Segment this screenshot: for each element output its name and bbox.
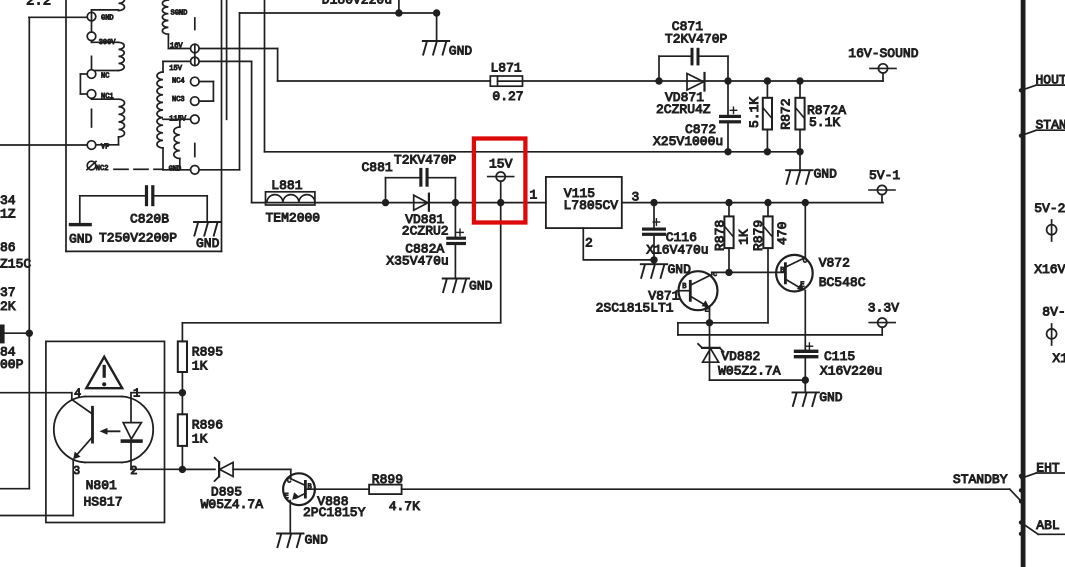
svg-text:X35V470u: X35V470u <box>386 254 448 269</box>
svg-text:R879: R879 <box>751 220 766 251</box>
svg-text:C115: C115 <box>824 349 855 364</box>
svg-text:1K: 1K <box>192 359 208 374</box>
svg-text:R896: R896 <box>192 418 223 433</box>
svg-text:1: 1 <box>530 188 538 203</box>
svg-text:TEM2000: TEM2000 <box>266 211 321 226</box>
svg-text:C: C <box>287 477 291 485</box>
svg-text:5V-1: 5V-1 <box>869 168 900 183</box>
svg-text:16V-SOUND: 16V-SOUND <box>848 46 918 61</box>
svg-text:C: C <box>803 258 807 266</box>
svg-text:B: B <box>682 283 686 291</box>
svg-text:5.1K: 5.1K <box>747 97 762 128</box>
svg-text:W05Z4.7A: W05Z4.7A <box>201 497 264 512</box>
svg-text:1: 1 <box>133 386 140 400</box>
svg-text:2.2: 2.2 <box>26 0 51 10</box>
svg-text:GND: GND <box>101 14 114 22</box>
svg-text:X16V470u: X16V470u <box>646 243 708 258</box>
svg-text:BC548C: BC548C <box>819 275 866 290</box>
svg-text:X16V: X16V <box>1034 262 1065 277</box>
svg-text:15V: 15V <box>489 157 513 172</box>
svg-text:STANDBY: STANDBY <box>1036 118 1065 133</box>
svg-text:2SC1815LT1: 2SC1815LT1 <box>596 301 674 316</box>
svg-text:4: 4 <box>74 386 81 400</box>
svg-text:C881: C881 <box>362 160 393 175</box>
svg-text:3: 3 <box>632 189 640 204</box>
svg-text:c: c <box>713 271 717 279</box>
svg-text:1K: 1K <box>192 432 208 447</box>
svg-text:470: 470 <box>775 222 790 245</box>
svg-text:B: B <box>780 267 784 275</box>
svg-text:GND: GND <box>814 166 838 181</box>
svg-text:2CZRU2: 2CZRU2 <box>402 224 449 239</box>
svg-text:SGND: SGND <box>171 10 188 18</box>
svg-text:NC2: NC2 <box>96 165 109 173</box>
svg-text:VD882: VD882 <box>721 349 760 364</box>
svg-text:GND: GND <box>469 278 493 293</box>
svg-text:STANDBY: STANDBY <box>953 472 1008 487</box>
svg-text:15V: 15V <box>169 65 182 73</box>
svg-text:HS817: HS817 <box>84 494 123 509</box>
svg-text:37: 37 <box>0 285 16 300</box>
svg-text:L871: L871 <box>491 61 522 76</box>
svg-text:B: B <box>308 484 312 492</box>
svg-text:T2KV470P: T2KV470P <box>394 152 457 167</box>
svg-text:EHT: EHT <box>1036 460 1060 475</box>
svg-text:T2KV470P: T2KV470P <box>665 31 728 46</box>
svg-text:R878: R878 <box>712 220 727 251</box>
svg-text:5.1K: 5.1K <box>809 115 840 130</box>
svg-text:NC4: NC4 <box>172 77 185 85</box>
svg-text:3.3V: 3.3V <box>868 300 899 315</box>
svg-text:5V-2: 5V-2 <box>1034 201 1065 216</box>
svg-text:NC: NC <box>101 73 109 81</box>
svg-text:HOUT: HOUT <box>1036 73 1065 88</box>
svg-text:300V: 300V <box>99 39 117 47</box>
svg-text:X16V220u: X16V220u <box>820 363 882 378</box>
svg-text:Z15C: Z15C <box>0 257 31 272</box>
svg-text:NC1: NC1 <box>101 93 114 101</box>
svg-text:86: 86 <box>0 240 16 255</box>
svg-text:E: E <box>285 493 289 501</box>
svg-text:GND: GND <box>819 390 843 405</box>
svg-text:T250V2200P: T250V2200P <box>99 230 177 245</box>
svg-text:2K: 2K <box>0 299 16 314</box>
svg-text:NC3: NC3 <box>172 96 185 104</box>
svg-text:R872: R872 <box>778 98 793 129</box>
svg-text:GND: GND <box>69 232 93 247</box>
svg-text:R899: R899 <box>372 472 403 487</box>
svg-text:L7805CV: L7805CV <box>564 198 619 213</box>
svg-text:115V: 115V <box>169 115 187 123</box>
svg-text:00P: 00P <box>0 357 24 372</box>
svg-text:2: 2 <box>585 235 593 250</box>
svg-text:E: E <box>800 281 804 289</box>
svg-text:N801: N801 <box>86 478 117 493</box>
svg-text:2CZRU4Z: 2CZRU4Z <box>656 102 711 117</box>
svg-text:0.27: 0.27 <box>492 89 523 104</box>
svg-text:2PC1815Y: 2PC1815Y <box>303 505 366 520</box>
svg-text:16V: 16V <box>170 43 183 51</box>
svg-text:2: 2 <box>130 464 137 478</box>
svg-text:GND: GND <box>196 236 220 251</box>
svg-text:GND: GND <box>449 44 473 59</box>
svg-text:VP: VP <box>101 144 109 152</box>
svg-text:8V-: 8V- <box>1042 304 1065 319</box>
svg-text:V872: V872 <box>819 256 850 271</box>
svg-text:ABL: ABL <box>1036 518 1059 533</box>
svg-text:D180V220u: D180V220u <box>322 0 392 8</box>
svg-text:GND: GND <box>169 166 182 174</box>
svg-text:X25V1000u: X25V1000u <box>653 134 723 149</box>
svg-text:GND: GND <box>305 532 329 547</box>
svg-text:1K: 1K <box>736 229 751 245</box>
svg-text:R895: R895 <box>192 345 223 360</box>
svg-text:X1: X1 <box>1052 351 1065 366</box>
svg-text:W05Z2.7A: W05Z2.7A <box>718 363 781 378</box>
svg-text:E: E <box>705 306 709 314</box>
svg-text:3: 3 <box>73 464 80 478</box>
svg-text:4.7K: 4.7K <box>389 499 420 514</box>
svg-text:C820B: C820B <box>130 212 169 227</box>
svg-text:1Z: 1Z <box>0 207 16 222</box>
svg-text:L881: L881 <box>271 178 302 193</box>
